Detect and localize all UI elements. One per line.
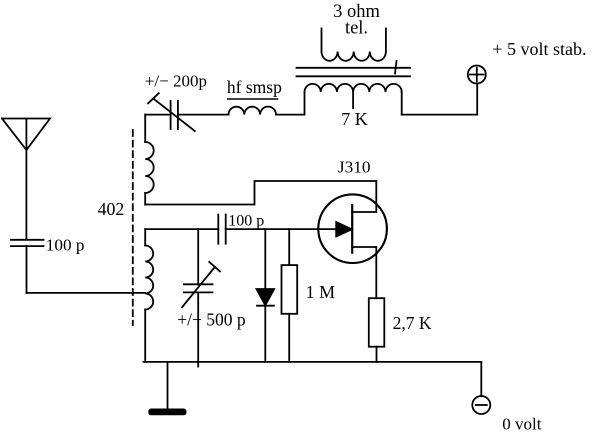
transformer 402 secondary winding xyxy=(145,229,153,362)
wire inductor to transformer T2 xyxy=(276,114,305,116)
variable capacitor 200p xyxy=(148,93,195,131)
wire top: primary top to variable cap xyxy=(145,114,170,116)
svg-text:+/− 500 p: +/− 500 p xyxy=(177,310,246,330)
+5V terminal xyxy=(468,66,486,84)
svg-text:+ 5 volt stab.: + 5 volt stab. xyxy=(492,39,586,59)
wire 7K right lead to +5V xyxy=(402,84,478,115)
transformer T2 primary 7K winding xyxy=(305,84,402,115)
transformer T2 secondary winding (3 ohm tel.) xyxy=(322,29,386,61)
capacitor 100p antenna xyxy=(11,240,44,293)
ground xyxy=(149,362,185,415)
wire primary bottom to drain riser xyxy=(145,181,376,205)
wire gate line xyxy=(145,228,218,230)
svg-text:100 p: 100 p xyxy=(228,212,264,229)
inductor hf smsp xyxy=(229,107,277,115)
svg-text:7 K: 7 K xyxy=(341,109,368,129)
capacitor 100p gate xyxy=(218,215,225,244)
wire cap to inductor xyxy=(178,114,229,116)
svg-text:hf smsp: hf smsp xyxy=(227,77,282,97)
svg-text:0 volt: 0 volt xyxy=(502,415,541,433)
wire cap to JFET gate xyxy=(226,228,352,230)
svg-text:402: 402 xyxy=(98,199,125,219)
antenna xyxy=(2,119,50,239)
bottom rail wire xyxy=(144,361,482,363)
svg-text:J310: J310 xyxy=(338,157,371,176)
transformer T2 core xyxy=(297,61,411,76)
svg-text:100 p: 100 p xyxy=(46,236,85,255)
transformer 402 core (dashed) xyxy=(132,130,134,325)
0V terminal xyxy=(472,362,490,414)
diode D1 xyxy=(257,229,275,362)
resistor 1M xyxy=(282,229,298,362)
svg-text:tel.: tel. xyxy=(345,19,368,39)
transformer 402 primary winding xyxy=(145,115,154,205)
svg-text:2,7 K: 2,7 K xyxy=(393,313,432,333)
JFET J310 xyxy=(318,181,387,298)
svg-text:+/− 200p: +/− 200p xyxy=(145,71,207,90)
wire antenna to coil tap xyxy=(27,292,146,294)
svg-text:1 M: 1 M xyxy=(306,282,336,302)
variable capacitor 500p xyxy=(182,229,220,366)
resistor 2,7K xyxy=(369,298,385,362)
